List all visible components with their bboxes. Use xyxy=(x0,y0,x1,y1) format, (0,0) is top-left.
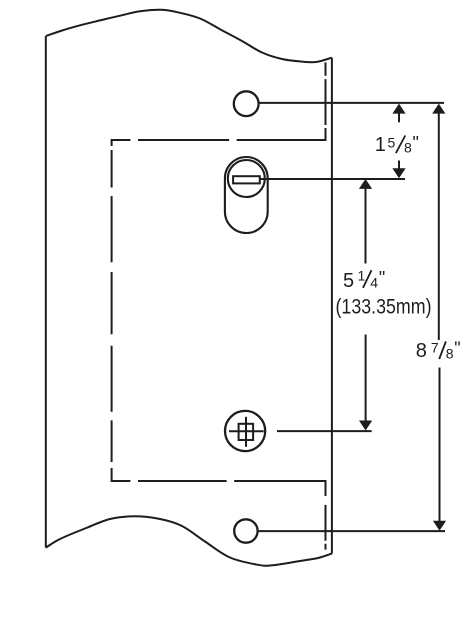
svg-text:5: 5 xyxy=(388,135,396,151)
svg-text:": " xyxy=(454,339,460,359)
svg-text:7: 7 xyxy=(431,339,439,355)
svg-text:1: 1 xyxy=(375,134,386,156)
svg-text:": " xyxy=(379,268,385,288)
svg-text:5: 5 xyxy=(343,270,354,292)
svg-text:(133.35mm): (133.35mm) xyxy=(336,296,432,319)
svg-text:8: 8 xyxy=(416,340,427,362)
svg-text:8: 8 xyxy=(404,140,412,156)
svg-text:": " xyxy=(413,133,419,153)
svg-text:8: 8 xyxy=(446,345,454,361)
svg-text:1: 1 xyxy=(358,267,366,283)
svg-text:4: 4 xyxy=(370,274,378,290)
